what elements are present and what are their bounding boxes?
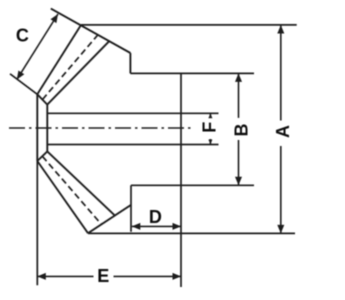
svg-text:F: F [200, 122, 220, 133]
svg-text:E: E [97, 266, 109, 286]
svg-text:B: B [232, 124, 252, 137]
svg-text:D: D [149, 207, 162, 227]
svg-text:A: A [273, 125, 293, 138]
svg-text:C: C [16, 25, 29, 45]
